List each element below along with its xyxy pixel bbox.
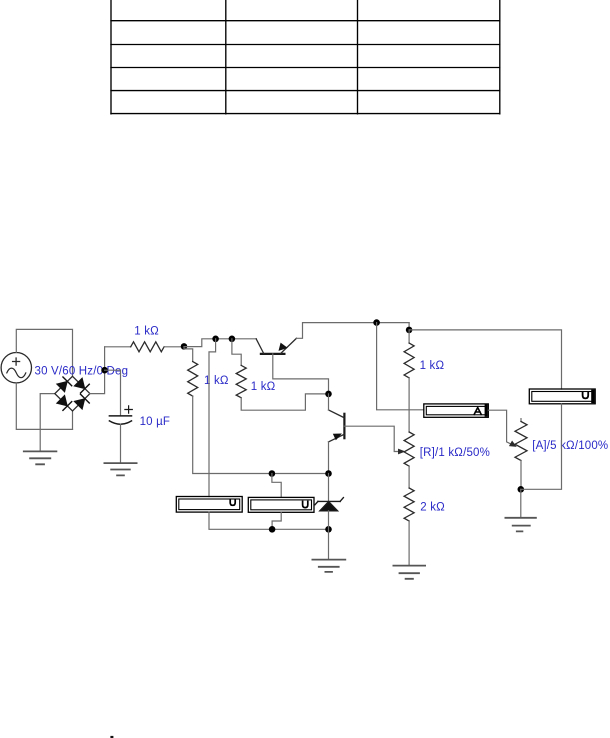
wire R3 bottom to zener node rail	[193, 396, 329, 473]
svg-text:10 µF: 10 µF	[140, 416, 171, 428]
resistor R6 2k	[404, 488, 414, 521]
node B dot	[269, 526, 276, 533]
wire bridge left vertex to ground	[40, 394, 55, 451]
wire U1 bottom to bottom rail	[209, 512, 329, 529]
wire pot A bottom to node H	[520, 461, 522, 490]
diode D1 (upper-left edge)	[56, 377, 71, 392]
wire U2 bottom to node B	[272, 512, 281, 529]
svg-text:1 kΩ: 1 kΩ	[420, 360, 445, 372]
resistor R2 1k horizontal	[105, 346, 131, 348]
svg-text:1 kΩ: 1 kΩ	[204, 375, 229, 387]
node cap tap junction	[101, 367, 108, 374]
wire Q2 base to pot R wiper	[344, 426, 401, 451]
transistor Q1 PNP	[256, 338, 296, 354]
ammeter U3 letter	[474, 408, 481, 415]
diode D2 (upper-right edge)	[74, 378, 89, 393]
wire node C to zener cathode	[328, 474, 330, 502]
node dot3	[229, 336, 236, 343]
ground GND2	[104, 463, 136, 475]
node dot2	[212, 336, 219, 343]
wire dot E to ammeter	[377, 323, 424, 410]
wire U4 bottom to node H	[521, 404, 562, 490]
voltmeter U4 letter	[583, 392, 589, 399]
node C dot	[325, 470, 332, 477]
svg-text:2 kΩ: 2 kΩ	[420, 501, 445, 513]
stray period mark bottom	[110, 736, 113, 738]
svg-text:30 V/60 Hz/0 Deg: 30 V/60 Hz/0 Deg	[35, 366, 129, 378]
capacitor C1 10uF	[109, 416, 131, 424]
wire Q1 base to node G	[273, 354, 329, 394]
voltmeter U1 letter	[230, 500, 235, 506]
transistor Q2 PNP	[329, 410, 345, 442]
wire source bottom rail	[16, 383, 72, 430]
svg-text:[A]/5 kΩ/100%: [A]/5 kΩ/100%	[532, 440, 608, 452]
wire pot R to R6	[408, 466, 410, 488]
voltmeter U2 box	[248, 497, 314, 512]
ammeter U3 box	[424, 404, 489, 417]
wire dot3 to R4	[232, 339, 241, 366]
wire dot2 to voltmeter U1	[209, 339, 216, 497]
diode D3 (lower-left edge)	[56, 395, 71, 410]
node A dot	[269, 470, 276, 477]
wire dot F to right voltmeter	[409, 330, 561, 389]
wire node G to Q2 collector	[328, 394, 330, 410]
svg-text:1 kΩ: 1 kΩ	[134, 325, 159, 337]
wire rail step to dot F	[408, 323, 410, 330]
ground GND4	[393, 566, 425, 579]
AC source V1	[1, 353, 31, 383]
pot A wiper arrow	[510, 441, 517, 446]
ground GND3	[312, 560, 345, 572]
resistor R3 1k vertical	[188, 362, 198, 397]
node dot E	[373, 319, 380, 326]
bridge rectifier diamond	[55, 376, 90, 411]
node G	[325, 391, 332, 398]
svg-text:1 kΩ: 1 kΩ	[251, 381, 276, 393]
potentiometer R pot	[404, 432, 414, 466]
wire cap to ground	[120, 424, 122, 463]
voltmeter U2 letter	[303, 502, 308, 508]
wire R5 bottom to pot R top	[408, 378, 410, 432]
ground GND5	[505, 518, 536, 532]
zener diode D5	[315, 498, 343, 511]
node dot1	[181, 343, 188, 350]
resistor R4 1k vertical	[236, 365, 246, 397]
wire dot1 to R3	[184, 347, 193, 362]
wire dot1 to top rail	[184, 339, 256, 347]
wire R4 bottom to node G	[241, 394, 328, 410]
voltmeter U1 box	[176, 497, 242, 513]
wire cap branch	[105, 370, 121, 416]
wire source top to bridge top	[16, 329, 72, 376]
voltmeter U4 box right	[529, 389, 595, 404]
wire Q2 emitter down to node C	[328, 442, 330, 474]
node dot F	[406, 327, 413, 334]
potentiometer A pot	[520, 419, 522, 422]
wire R6 to ground	[408, 521, 410, 565]
ground GND1	[24, 451, 57, 464]
wire ammeter to pot A wiper	[488, 410, 512, 444]
wire Q1 emitter to top rail	[296, 323, 409, 339]
capacitor plus sign	[125, 406, 132, 413]
diode D4 (lower-right edge)	[74, 394, 89, 409]
wire zener to ground	[328, 511, 330, 559]
resistor R5 1k vertical right	[408, 330, 410, 343]
node H dot	[518, 486, 525, 493]
pot R wiper arrow	[398, 449, 404, 454]
wire bridge right output up	[90, 347, 105, 394]
svg-text:[R]/1 kΩ/50%: [R]/1 kΩ/50%	[420, 447, 490, 459]
wire node A to voltmeter U2	[272, 474, 281, 498]
node D dot	[325, 526, 332, 533]
wire bridge bottom stub	[72, 411, 74, 429]
table grid	[111, 0, 500, 114]
wire node H to ground	[520, 489, 522, 517]
